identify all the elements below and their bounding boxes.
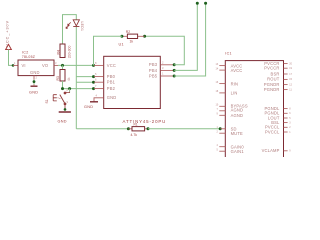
svg-text:AGND: AGND (231, 108, 244, 113)
U1 pin name PB1 (107, 80, 116, 85)
resistor R2 (122, 34, 145, 38)
svg-text:78L05Z: 78L05Z (22, 55, 36, 59)
wire SD run (76, 128, 128, 130)
node rail R4/R3 junction (61, 64, 64, 67)
node PB4 pin junction (173, 69, 176, 72)
IC2 pin name VI (22, 63, 26, 68)
node PB5 pin junction (173, 75, 176, 78)
IC1 pin name LIN (231, 91, 238, 96)
svg-text:GND: GND (29, 90, 38, 94)
S1 name label (45, 99, 49, 103)
IC1 pin PGNDR 1 stub (284, 83, 293, 86)
node rail VCC pin junction (92, 64, 95, 67)
svg-text:VO: VO (42, 63, 48, 68)
svg-text:LED1: LED1 (80, 22, 84, 32)
IC2 pin GND stub (34, 76, 38, 80)
svg-text:U1: U1 (119, 43, 124, 47)
svg-text:R1: R1 (134, 123, 138, 127)
wire PB3 to R2 (145, 36, 185, 65)
node PB5 wire end (204, 2, 207, 5)
svg-text:7: 7 (217, 108, 219, 111)
U1 pin VCC stub (94, 61, 104, 66)
svg-text:2: 2 (289, 126, 291, 129)
node PB2 pin junction (92, 87, 95, 90)
IC1 pin name PVCCR (264, 66, 279, 71)
svg-text:16: 16 (216, 81, 219, 84)
svg-text:6: 6 (95, 78, 97, 82)
IC1 pin PVCCR 2 stub (284, 67, 293, 70)
svg-text:12: 12 (289, 83, 292, 86)
svg-text:AGND: AGND (231, 113, 244, 118)
IC1 pin PVCCR 1 stub (284, 62, 293, 65)
svg-text:LIN: LIN (231, 91, 238, 96)
svg-text:VCLAMP: VCLAMP (262, 148, 280, 153)
wire PB5 up to top (174, 3, 205, 76)
wire LED column PB0 to PB1 (75, 77, 77, 83)
IC1 pin LIN stub (216, 90, 226, 93)
IC1 pin PVCCL 1 stub (284, 126, 292, 129)
svg-text:11: 11 (289, 88, 292, 91)
IC1 pin MUTE stub (217, 131, 226, 134)
IC1 pin name BSR (271, 71, 280, 76)
svg-text:IC1: IC1 (225, 51, 232, 55)
svg-text:2: 2 (217, 131, 219, 134)
svg-text:BSR: BSR (271, 71, 280, 76)
svg-text:VCC_+30V: VCC_+30V (6, 20, 10, 47)
IC1 pin name LOUT (268, 115, 280, 120)
svg-text:1: 1 (162, 72, 164, 76)
IC1 pin GAIN1 stub (217, 149, 226, 152)
svg-text:GND: GND (84, 105, 93, 109)
svg-text:18: 18 (216, 90, 219, 93)
svg-text:3: 3 (289, 121, 291, 124)
IC1 pin name AGND (231, 108, 244, 113)
svg-text:13: 13 (216, 63, 219, 66)
node IC2 gnd junction (33, 80, 36, 83)
U1 value ATTINY45-20PU (123, 119, 167, 124)
svg-text:GND: GND (30, 70, 40, 75)
node R2 left pin junction (120, 35, 123, 38)
svg-text:2: 2 (162, 60, 164, 64)
svg-text:4: 4 (217, 144, 219, 147)
svg-text:PGNDR: PGNDR (264, 87, 280, 92)
wire column down to SD run (75, 82, 77, 129)
U1 pin name VCC (107, 63, 116, 68)
IC1 pin name BSL (271, 120, 280, 125)
resistor R3 (60, 65, 65, 88)
svg-text:8: 8 (95, 61, 97, 65)
IC1 pin ROUT stub (284, 78, 293, 81)
svg-text:1: 1 (14, 61, 16, 65)
IC1 pin BYPASS stub (216, 104, 226, 107)
IC1 pin name GAIN1 (231, 149, 245, 154)
IC2 pin VI stub (13, 61, 18, 66)
IC1 pin AVCC 1 stub (216, 63, 226, 66)
LED LED1 (73, 20, 79, 27)
U1 pin name PB0 (107, 74, 116, 79)
IC1 pin name PVCCR (264, 61, 279, 66)
node PB0 pin junction (92, 75, 95, 78)
IC1 pin PGNDL 2 stub (284, 112, 292, 115)
R1 name label (134, 123, 138, 127)
ground GND under IC2 (29, 84, 38, 94)
svg-text:4: 4 (96, 94, 98, 98)
U1 pin PB1 stub (94, 78, 104, 83)
svg-text:PVCCL: PVCCL (265, 129, 280, 134)
svg-text:8: 8 (289, 107, 291, 110)
U1 pin PB4 stub (160, 66, 174, 71)
svg-text:PB4: PB4 (149, 68, 158, 73)
svg-text:1k: 1k (130, 40, 134, 44)
wire R2 to VCC rail riser (94, 36, 122, 65)
IC1 pin name AGND (231, 113, 244, 118)
IC1 pin name RIN (231, 81, 239, 86)
U1 pin GND stub (94, 94, 104, 102)
svg-text:200-300: 200-300 (68, 45, 72, 58)
svg-text:VI: VI (22, 63, 26, 68)
wire IC2 GND to ground (33, 80, 35, 85)
node R3 bottom junction (61, 87, 64, 90)
node R2 right pin junction (143, 35, 146, 38)
svg-text:3: 3 (162, 66, 164, 70)
U1 pin name PB3 (149, 62, 158, 67)
IC1 pin name AVCC (231, 68, 243, 73)
R2 value 1k (130, 40, 134, 44)
svg-text:5: 5 (289, 117, 291, 120)
IC1 pin SD stub (217, 126, 226, 129)
IC1 pin name PGNDL (264, 111, 280, 116)
svg-text:20: 20 (289, 62, 292, 65)
resistor R4 (60, 44, 65, 58)
U1 pin name GND (107, 95, 117, 100)
svg-text:S1: S1 (45, 99, 49, 103)
svg-text:2: 2 (36, 76, 38, 80)
wire R4 top lead and top run to LED (63, 15, 77, 58)
node switch tap junction (68, 87, 71, 90)
resistor R1 (128, 127, 148, 131)
IC1 pin AGND 2 stub (217, 113, 226, 116)
IC1 pin name AVCC (231, 63, 243, 68)
wire switch feed (69, 89, 71, 92)
wire PB0 line (76, 76, 93, 78)
LED1 emission arrows (66, 22, 71, 28)
svg-text:14: 14 (216, 67, 219, 70)
svg-text:AVCC: AVCC (231, 68, 243, 73)
IC1 pin AGND 1 stub (217, 108, 226, 111)
IC1 pin name PGNDL (264, 106, 280, 111)
IC1 pin name BYPASS (231, 103, 248, 108)
node PB4 wire end (196, 2, 199, 5)
node R1 left pin junction (127, 127, 130, 130)
svg-text:4k: 4k (67, 77, 71, 81)
IC1 amplifier box (225, 61, 283, 161)
wire LED cathode down to PB0 row (75, 27, 77, 77)
wire PB4 up to top (174, 3, 197, 70)
wire PB1 line (76, 81, 93, 83)
svg-text:GND: GND (107, 95, 117, 100)
node SD pin junction (219, 127, 222, 130)
IC1 pin name MUTE (231, 131, 243, 136)
U1 pin name PB5 (149, 73, 158, 78)
U1 name label (119, 43, 124, 47)
node switch gnd junction (64, 108, 67, 111)
svg-text:4.7k: 4.7k (131, 133, 138, 137)
svg-text:3: 3 (55, 61, 57, 65)
node PB1 pin junction (92, 81, 95, 84)
svg-text:6: 6 (289, 112, 291, 115)
IC1 pin name PVCCL (265, 125, 280, 130)
IC1 pin name PGNDR (264, 82, 280, 87)
node PB3 pin junction (173, 63, 176, 66)
svg-text:MUTE: MUTE (231, 131, 243, 136)
svg-text:9: 9 (217, 113, 219, 116)
svg-text:9: 9 (289, 150, 291, 153)
svg-text:PVCCR: PVCCR (264, 66, 279, 71)
svg-text:10: 10 (216, 104, 219, 107)
svg-text:P: P (67, 89, 69, 92)
IC1 pin name ROUT (267, 77, 280, 82)
IC2 value 78L05Z (22, 55, 36, 59)
svg-text:RIN: RIN (231, 81, 239, 86)
IC2 label (22, 50, 29, 54)
svg-text:PB3: PB3 (149, 62, 158, 67)
node R1 right pin junction (147, 127, 150, 130)
ATtiny U1 box (104, 56, 161, 108)
ground GND under switch (58, 112, 71, 124)
LED1 name label (80, 22, 84, 32)
IC1 pin name SD (231, 126, 237, 131)
wire R1 to IC1 SD (148, 128, 220, 130)
U1 pin name PB2 (107, 86, 116, 91)
U1 pin PB0 stub (94, 72, 104, 77)
IC1 pin name PVCCL (265, 129, 280, 134)
R4 value 200-300 (68, 45, 72, 58)
IC1 pin name GAIN0 (231, 144, 245, 149)
svg-text:GND: GND (58, 120, 67, 124)
IC1 pin BSL stub (284, 121, 292, 124)
U1 pin name PB4 (149, 68, 158, 73)
U1 pin PB5 stub (160, 72, 174, 77)
IC1 pin AVCC 2 stub (216, 67, 226, 70)
svg-text:5: 5 (95, 72, 97, 76)
svg-text:IC2: IC2 (22, 50, 29, 54)
wire PB2 line (63, 88, 94, 90)
IC1 pin RIN stub (216, 81, 226, 84)
R3 value (67, 77, 71, 81)
R1 value 4.7k (131, 133, 138, 137)
svg-text:17: 17 (289, 73, 292, 76)
svg-text:S: S (67, 101, 69, 104)
svg-text:PB2: PB2 (107, 86, 116, 91)
IC1 pin name VCLAMP (262, 148, 280, 153)
svg-text:GAIN1: GAIN1 (231, 149, 245, 154)
IC1 pin PGNDL 1 stub (284, 107, 292, 110)
IC1 pin name PGNDR (264, 87, 280, 92)
svg-text:R2: R2 (126, 30, 130, 34)
IC1 pin PVCCL 2 stub (284, 131, 292, 134)
IC1 pin BSR stub (284, 73, 293, 76)
IC1 pin LOUT stub (284, 117, 292, 120)
wire switch to ground (64, 109, 66, 111)
U1 pin PB3 stub (160, 60, 174, 65)
supply arrow VCC_+30V (6, 44, 12, 49)
svg-text:5: 5 (217, 149, 219, 152)
IC2 pin name GND (30, 70, 40, 75)
ground GND under U1 (84, 102, 98, 109)
R3 name label (56, 76, 60, 80)
R4 name label (56, 50, 60, 54)
IC2 78L05 box (18, 60, 54, 76)
IC1 pin VCLAMP stub (284, 150, 292, 153)
svg-text:R4: R4 (56, 50, 60, 54)
R2 name label (126, 30, 130, 34)
svg-text:PB5: PB5 (149, 73, 158, 78)
U1 pin PB2 stub (94, 84, 104, 89)
switch S1 (53, 92, 69, 109)
svg-text:PB0: PB0 (107, 74, 116, 79)
node VI pin junction (12, 64, 15, 67)
svg-text:VCC: VCC (107, 63, 116, 68)
IC2 pin name VO (42, 63, 48, 68)
svg-text:15: 15 (289, 78, 292, 81)
svg-text:PB1: PB1 (107, 80, 116, 85)
svg-text:ATTINY45-20PU: ATTINY45-20PU (123, 119, 167, 124)
IC1 pin PGNDR 2 stub (284, 88, 293, 91)
svg-text:19: 19 (289, 67, 292, 70)
svg-text:1: 1 (289, 131, 291, 134)
svg-text:R3: R3 (56, 76, 60, 80)
wire 5V rail VO to ATtiny VCC (58, 64, 94, 66)
IC1 name label (225, 51, 232, 55)
wire supply to IC2 VI (9, 50, 14, 66)
svg-text:7: 7 (95, 84, 97, 88)
IC1 pin GAIN0 stub (217, 144, 226, 147)
IC2 pin VO stub (54, 61, 58, 66)
S1 pin names (67, 89, 69, 104)
supply VCC_+30V label (6, 20, 10, 47)
